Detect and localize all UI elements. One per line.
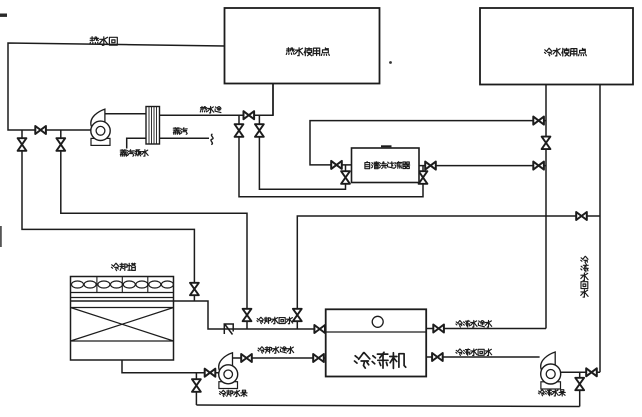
cooling tower (冷却塔): [71, 277, 174, 361]
steam line break symbol: [211, 134, 213, 145]
pipe: chilled water return riser: [599, 85, 601, 373]
pipe: flush line V1: hot supply down, east, up to filter outlet: [239, 115, 423, 197]
pipe: chilled water return: pump -> chiller: [426, 356, 539, 358]
valve (gate) at filter inlet: [331, 161, 342, 169]
valve (gate, vertical) on V2 at filter: [341, 171, 350, 184]
pipe: flush line V2: hot supply down, east, up to filter inlet: [259, 115, 345, 189]
label: 冷冻水回水: [456, 349, 492, 356]
pipe: hot usage box feed stub: [272, 84, 274, 116]
scan speck left edge: [0, 226, 2, 247]
valve (gate, vertical) on V1 at filter: [419, 171, 428, 184]
scan speck dot: [389, 61, 392, 64]
scan speck top-left: [0, 14, 7, 17]
pipe: filter feed: riser tap west then down: [310, 121, 546, 165]
pipe: steam condensate outlet: [127, 138, 146, 148]
pipe: drain drop right (at P3 suction): [579, 372, 581, 406]
label: 冷却水回水: [257, 317, 293, 324]
valve (gate, vertical) on V2 top: [255, 124, 264, 137]
pipe: hot water supply: HX -> up to box: [160, 84, 274, 116]
pipe: chilled water supply riser: [545, 85, 547, 329]
pipe: chilled water supply: chiller -> east -> riser: [426, 328, 546, 330]
label: 冷冻水泵: [538, 390, 565, 396]
valve (gate) on cross line: [576, 212, 587, 220]
valve (gate) on hot supply: [244, 111, 255, 119]
heat exchanger (steam/hot-water): [146, 107, 160, 145]
valve (gate, vertical) on V1 top: [235, 124, 244, 137]
pipe: P3 suction from return riser: [561, 371, 600, 373]
box: hot water usage point (热水使用点): [225, 8, 380, 84]
valve (gate) on P2 suction: [205, 369, 216, 377]
label: 自清洗过滤器: [365, 162, 410, 169]
pipe: P1 outlet to heat exchanger: [105, 113, 146, 115]
valve (gate) at chiller chilled outlet: [433, 325, 444, 333]
valve (gate) on hot return: [35, 126, 46, 134]
label: 冷冻水送水: [456, 320, 492, 327]
pipe: hot water return: box left -> left margin -> down -> pump inlet: [8, 43, 225, 130]
valve (gate) at chiller cooling supply inlet: [313, 354, 324, 362]
pipe: cooling water return: chiller -> west -> up -> tower: [174, 301, 326, 329]
valve (gate, vertical) on branch 1 top: [18, 138, 27, 151]
chiller internal divider: [326, 331, 427, 333]
pipe: makeup branch 2: down from hot return, east to chiller return: [61, 130, 247, 329]
pipe: blowdown cross line: return riser west then down to cooling return: [297, 216, 600, 329]
valve (gate) at P2 discharge: [241, 354, 252, 362]
valve (gate) on filter return near riser: [533, 162, 544, 170]
pump P3 chilled water: [541, 352, 561, 389]
pump P1 hot water: [91, 109, 110, 145]
label: 冷却塔: [112, 263, 136, 270]
pipe: filter outlet to riser: [419, 165, 546, 167]
check valve on cooling return: [224, 324, 235, 335]
label: 热水回: [90, 37, 117, 46]
pipe: cooling water supply: P2 -> chiller: [233, 357, 326, 359]
label: 冷冻水回水 (vertical): [581, 256, 589, 297]
label: 冷却水泵: [219, 390, 247, 396]
box: cold water usage point (冷水使用点): [480, 8, 633, 85]
pump P2 cooling water: [219, 353, 238, 389]
valve (gate, vertical) on branch 2 top: [56, 138, 65, 151]
pipe: tower spray header (inside): [71, 300, 174, 302]
valve (gate) at chiller chilled return inlet: [432, 353, 443, 361]
label: 冷却水送水: [258, 347, 294, 354]
valve (gate, vertical) on branch 2 at bottom: [243, 309, 252, 321]
valve (gate, vertical) on cross line drop: [293, 309, 302, 321]
box: self-cleaning filter (自清洗过滤器): [352, 148, 420, 183]
label: 热水送: [200, 106, 221, 113]
valve (gate) at filter outlet: [425, 162, 436, 170]
pipe: common drain line: [196, 405, 579, 407]
label: 热水使用点: [286, 48, 329, 56]
valve (gate, vertical) on right drain: [575, 378, 584, 390]
valve (gate) on P3 suction: [586, 368, 597, 376]
label: 蒸汽凝水: [120, 150, 148, 157]
valve (gate, vertical) riser bypass valve: [542, 137, 551, 150]
pipe: drain drop left (at P2 suction): [195, 373, 197, 405]
label: 冷水使用点: [545, 48, 587, 56]
box: chiller (冷冻机): [326, 309, 427, 376]
valve (gate) on filter feed near riser: [533, 117, 544, 125]
label: 蒸汽: [173, 128, 187, 135]
chiller sight glass: [372, 316, 383, 327]
valve (gate) at chiller cooling inlet: [314, 325, 325, 333]
pipe: makeup branch 1: down from hot return, east to tower: [22, 130, 194, 301]
pipe: steam inlet: [160, 137, 210, 139]
valve (gate, vertical) on branch 1 at tower: [190, 283, 199, 295]
valve (gate, vertical) on left drain: [192, 379, 201, 392]
pipe: cooling water suction: tower bottom -> pump: [122, 360, 219, 373]
filter top tab: [381, 145, 392, 147]
label: 冷冻机: [355, 352, 406, 368]
